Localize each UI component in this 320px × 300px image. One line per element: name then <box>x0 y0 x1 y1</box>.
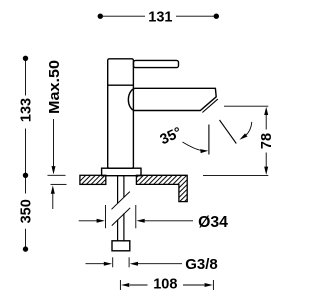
spout <box>134 88 216 110</box>
svg-text:Ø34: Ø34 <box>198 214 228 231</box>
stream direction line <box>220 120 237 144</box>
cap bottom line <box>108 84 134 86</box>
supply pipe with break <box>118 176 124 241</box>
svg-text:131: 131 <box>148 10 172 26</box>
base plate <box>102 168 141 176</box>
stream swivel arrow <box>244 122 252 137</box>
svg-text:Max.50: Max.50 <box>47 60 63 114</box>
counter right piece <box>136 175 187 201</box>
dim 78 spout height <box>203 106 268 175</box>
svg-text:108: 108 <box>153 276 177 292</box>
svg-text:133: 133 <box>18 98 34 122</box>
dim 108 bottom dimension <box>120 280 213 290</box>
dim G3/8 thread <box>86 257 183 267</box>
svg-text:350: 350 <box>19 199 35 223</box>
dim 133 left dimension <box>25 58 27 175</box>
faucet body outline <box>102 59 218 176</box>
lever handle <box>134 60 179 67</box>
dim 131 top dimension <box>100 15 216 17</box>
connection nut <box>112 241 130 251</box>
dim 350 left dimension <box>25 175 27 249</box>
svg-text:G3/8: G3/8 <box>185 256 218 273</box>
counter left piece <box>80 175 106 184</box>
pipe break slashes <box>112 192 131 226</box>
spout back arc <box>128 88 134 110</box>
dim O34 body diameter <box>79 205 193 228</box>
vertical reference line <box>208 125 210 155</box>
svg-text:78: 78 <box>259 133 275 149</box>
